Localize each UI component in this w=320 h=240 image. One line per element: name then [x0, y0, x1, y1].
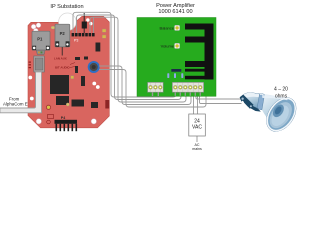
svg-text:P3: P3: [74, 39, 78, 43]
svg-text:ohms: ohms: [275, 93, 288, 99]
svg-text:Balance: Balance: [160, 25, 175, 30]
svg-text:LAN AUX: LAN AUX: [54, 57, 67, 61]
svg-text:1000 6141 00: 1000 6141 00: [158, 9, 192, 15]
svg-text:P2: P2: [60, 31, 66, 36]
svg-text:IP Substation: IP Substation: [50, 4, 83, 10]
svg-text:Volume: Volume: [161, 43, 175, 48]
svg-text:mains: mains: [192, 147, 202, 151]
svg-text:BIT AUDIO: BIT AUDIO: [55, 66, 70, 70]
svg-text:AlphaCom E: AlphaCom E: [3, 102, 28, 107]
svg-text:Power Amplifier: Power Amplifier: [156, 3, 195, 9]
svg-text:P1: P1: [37, 37, 43, 42]
svg-text:4 – 20: 4 – 20: [274, 87, 288, 93]
svg-text:P4: P4: [61, 116, 65, 120]
svg-text:VAC: VAC: [192, 125, 202, 131]
